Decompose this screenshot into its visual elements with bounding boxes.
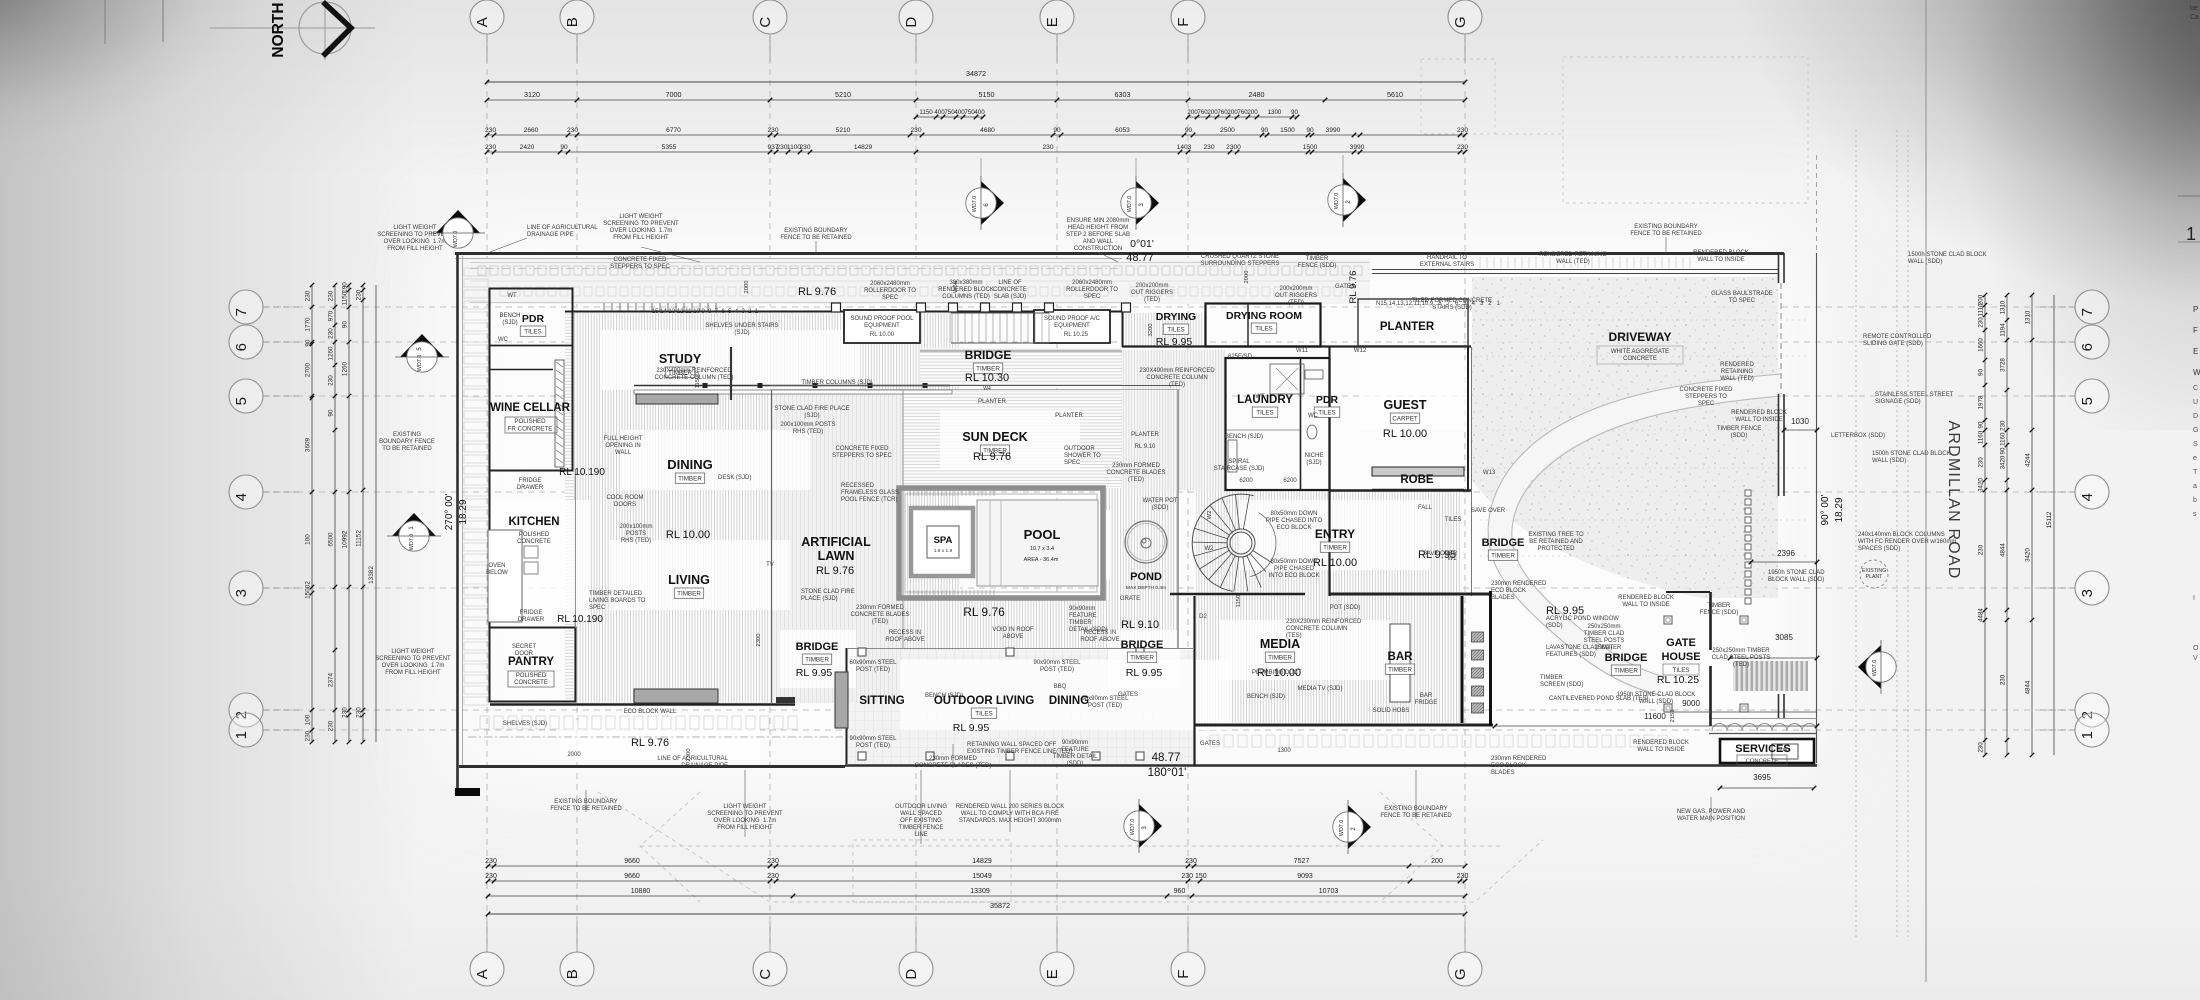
svg-text:DOORS: DOORS xyxy=(614,502,636,508)
svg-text:2300: 2300 xyxy=(686,749,692,762)
svg-text:B: B xyxy=(564,17,581,27)
svg-text:TO SPEC: TO SPEC xyxy=(1729,298,1756,304)
svg-text:FEATURES (SDD): FEATURES (SDD) xyxy=(1546,652,1596,658)
svg-text:4244: 4244 xyxy=(2025,453,2032,467)
svg-text:F: F xyxy=(1175,970,1192,979)
svg-text:2480: 2480 xyxy=(1249,90,1265,99)
svg-text:230: 230 xyxy=(1203,144,1214,151)
svg-text:WHITE AGGREGATE: WHITE AGGREGATE xyxy=(1611,349,1669,355)
svg-text:6: 6 xyxy=(2079,343,2096,351)
svg-text:PIPE CHASED: PIPE CHASED xyxy=(1274,566,1315,572)
svg-text:DRIVEWAY: DRIVEWAY xyxy=(1609,330,1672,344)
svg-text:PLACE (SJD): PLACE (SJD) xyxy=(801,596,838,602)
svg-text:230: 230 xyxy=(1457,127,1468,134)
svg-text:EXISTING TREE TO: EXISTING TREE TO xyxy=(1528,532,1584,538)
svg-text:STONE CLAD FIRE: STONE CLAD FIRE xyxy=(801,589,855,595)
svg-text:TIMBER FENCE: TIMBER FENCE xyxy=(1717,426,1762,432)
svg-text:230 150: 230 150 xyxy=(1181,873,1206,880)
svg-text:be: be xyxy=(2190,5,2198,12)
svg-text:230: 230 xyxy=(1978,317,1985,328)
svg-text:RL 10.00: RL 10.00 xyxy=(870,332,895,338)
svg-text:D: D xyxy=(2193,413,2198,420)
svg-text:FRIDGE: FRIDGE xyxy=(1415,700,1438,706)
svg-text:SIGNAGE (SDD): SIGNAGE (SDD) xyxy=(1875,399,1921,405)
svg-text:230: 230 xyxy=(1457,144,1468,151)
svg-text:RETAINING: RETAINING xyxy=(1721,369,1754,375)
svg-text:a: a xyxy=(2193,483,2197,490)
svg-text:SCREENING TO PREVENT: SCREENING TO PREVENT xyxy=(375,656,451,662)
svg-text:STEEL POSTS: STEEL POSTS xyxy=(1584,638,1625,644)
sheet edge fragments xyxy=(2178,97,2200,99)
svg-text:CONCRETE: CONCRETE xyxy=(1623,356,1657,362)
svg-text:(SDD): (SDD) xyxy=(1067,761,1084,767)
boundary walls xyxy=(455,252,1784,255)
spa xyxy=(911,508,973,576)
svg-text:RL 9.95: RL 9.95 xyxy=(1156,336,1193,348)
svg-text:RL 10.25: RL 10.25 xyxy=(1657,674,1699,686)
svg-text:100: 100 xyxy=(305,714,312,725)
svg-text:90x90mm: 90x90mm xyxy=(1062,740,1088,746)
svg-text:STUDY: STUDY xyxy=(659,352,702,366)
svg-text:BRIDGE: BRIDGE xyxy=(1482,537,1525,549)
svg-text:HEAD HEIGHT FROM: HEAD HEIGHT FROM xyxy=(1068,225,1128,231)
svg-text:230: 230 xyxy=(485,127,496,134)
svg-text:EQUIPMENT: EQUIPMENT xyxy=(864,323,900,329)
svg-text:5210: 5210 xyxy=(835,90,851,99)
svg-text:230mm FORMED: 230mm FORMED xyxy=(856,605,904,611)
svg-text:TIMBER CLAD: TIMBER CLAD xyxy=(1584,631,1625,637)
svg-text:WC: WC xyxy=(1308,413,1319,419)
svg-text:WD7.0: WD7.0 xyxy=(1334,193,1340,209)
svg-text:3695: 3695 xyxy=(1753,773,1771,782)
svg-text:RENDERED RETAINING: RENDERED RETAINING xyxy=(1539,252,1607,258)
svg-text:BLADES: BLADES xyxy=(1491,595,1515,601)
svg-text:FRAMELESS GLASS: FRAMELESS GLASS xyxy=(841,490,899,496)
svg-text:F: F xyxy=(1175,18,1192,27)
svg-text:(TED): (TED) xyxy=(872,619,888,625)
svg-text:PROTECTED: PROTECTED xyxy=(1537,546,1575,552)
svg-text:CARPET: CARPET xyxy=(1392,416,1418,423)
svg-text:P: P xyxy=(2193,305,2198,314)
svg-text:960: 960 xyxy=(1174,888,1186,895)
svg-text:FENCE TO BE RETAINED: FENCE TO BE RETAINED xyxy=(1380,813,1452,819)
svg-text:230: 230 xyxy=(1978,544,1985,555)
svg-text:W11: W11 xyxy=(1296,348,1309,354)
svg-text:SAVE OVER: SAVE OVER xyxy=(1471,508,1506,514)
svg-text:I: I xyxy=(2193,595,2195,602)
svg-text:STEPPERS TO SPEC: STEPPERS TO SPEC xyxy=(832,453,892,459)
svg-text:POOL: POOL xyxy=(1024,527,1061,542)
svg-text:SLAB (SJD): SLAB (SJD) xyxy=(994,294,1026,300)
svg-text:6200: 6200 xyxy=(1239,478,1253,484)
svg-text:INTO ECO BLOCK: INTO ECO BLOCK xyxy=(1269,573,1320,579)
svg-text:90: 90 xyxy=(1978,421,1985,428)
svg-text:200x100mm POSTS: 200x100mm POSTS xyxy=(780,422,835,428)
svg-text:STEPPERS TO: STEPPERS TO xyxy=(1685,394,1727,400)
svg-text:(TED): (TED) xyxy=(1144,297,1160,303)
svg-text:e: e xyxy=(2193,455,2197,462)
svg-text:W13: W13 xyxy=(1483,470,1496,476)
svg-text:400: 400 xyxy=(974,109,985,116)
svg-text:OUT RIGGERS: OUT RIGGERS xyxy=(1275,293,1317,299)
svg-text:1160: 1160 xyxy=(1978,430,1985,444)
svg-text:CONCRETE BLADES: CONCRETE BLADES xyxy=(850,612,909,618)
svg-text:RENDERED: RENDERED xyxy=(1720,362,1754,368)
svg-text:230: 230 xyxy=(328,290,335,301)
svg-text:250x250mm: 250x250mm xyxy=(1587,624,1620,630)
svg-text:ECO BLOCK: ECO BLOCK xyxy=(1491,763,1526,769)
svg-text:1950h STONE CLAD: 1950h STONE CLAD xyxy=(1768,570,1825,576)
svg-text:SPEC: SPEC xyxy=(589,605,606,611)
svg-text:1150: 1150 xyxy=(342,291,349,305)
svg-text:2159: 2159 xyxy=(1670,710,1676,723)
svg-text:POLISHED: POLISHED xyxy=(519,532,550,538)
svg-text:270° 00': 270° 00' xyxy=(444,494,455,531)
svg-text:TIMBER: TIMBER xyxy=(677,591,701,598)
spiral staircase xyxy=(1192,494,1276,591)
svg-text:BLOCK WALL (SDD): BLOCK WALL (SDD) xyxy=(1768,577,1824,583)
svg-text:3: 3 xyxy=(2079,589,2096,597)
svg-text:230mm RENDERED: 230mm RENDERED xyxy=(1491,756,1547,762)
svg-text:LAWN: LAWN xyxy=(818,549,855,563)
svg-text:FENCE (SDD): FENCE (SDD) xyxy=(1298,263,1337,269)
svg-text:OVEN: OVEN xyxy=(488,563,505,569)
svg-text:FULL HEIGHT: FULL HEIGHT xyxy=(604,436,643,442)
svg-text:W6a: W6a xyxy=(953,280,959,293)
svg-text:230X230mm REINFORCED: 230X230mm REINFORCED xyxy=(1286,619,1362,625)
floor textures xyxy=(574,313,960,703)
svg-text:OVER LOOKING 1.7m: OVER LOOKING 1.7m xyxy=(610,228,673,234)
svg-text:POST (TED): POST (TED) xyxy=(1040,667,1074,673)
svg-text:SPACES (SDD): SPACES (SDD) xyxy=(1858,546,1900,552)
svg-text:WALL (SDD): WALL (SDD) xyxy=(1639,699,1673,705)
svg-text:EXISTING: EXISTING xyxy=(393,432,421,438)
svg-text:WALL: WALL xyxy=(615,450,632,456)
svg-text:625E/SD: 625E/SD xyxy=(1228,354,1253,360)
svg-text:TILES: TILES xyxy=(1256,410,1274,417)
svg-text:ROBE: ROBE xyxy=(1400,474,1434,486)
svg-text:W: W xyxy=(2193,368,2200,377)
svg-text:1260: 1260 xyxy=(328,346,335,361)
svg-text:230: 230 xyxy=(305,730,312,741)
timber fence squares column xyxy=(1745,490,1751,496)
svg-text:TILES: TILES xyxy=(1255,326,1273,333)
svg-text:SPEC: SPEC xyxy=(882,295,899,301)
svg-text:LIVING BOARDS TO: LIVING BOARDS TO xyxy=(589,598,646,604)
svg-text:4680: 4680 xyxy=(980,127,995,134)
svg-text:RL 9.76: RL 9.76 xyxy=(631,737,669,749)
svg-text:CONCRETE FIXED: CONCRETE FIXED xyxy=(1679,387,1733,393)
svg-text:SPA: SPA xyxy=(934,535,953,546)
svg-text:TIMBER: TIMBER xyxy=(1491,553,1515,560)
svg-text:90: 90 xyxy=(1053,127,1061,134)
svg-text:7: 7 xyxy=(233,308,250,316)
svg-text:ENSURE MIN 2080mm: ENSURE MIN 2080mm xyxy=(1067,218,1130,224)
svg-text:WALL TO INSIDE: WALL TO INSIDE xyxy=(1735,417,1782,423)
svg-text:(SJD): (SJD) xyxy=(1306,460,1321,466)
svg-text:5355: 5355 xyxy=(662,144,677,151)
svg-text:NORTH: NORTH xyxy=(270,2,287,57)
svg-text:3: 3 xyxy=(233,589,250,597)
svg-text:1: 1 xyxy=(2186,224,2196,244)
svg-text:SURROUNDING STEPPERS: SURROUNDING STEPPERS xyxy=(1200,261,1279,267)
svg-text:VOID IN ROOF: VOID IN ROOF xyxy=(992,627,1034,633)
svg-text:CRUSHED QUARTZ STONE: CRUSHED QUARTZ STONE xyxy=(1201,254,1279,260)
svg-text:1500h STONE CLAD BLOCK: 1500h STONE CLAD BLOCK xyxy=(1908,252,1987,258)
svg-text:RL 10.30: RL 10.30 xyxy=(965,372,1009,384)
svg-text:WALL SPACED: WALL SPACED xyxy=(900,811,942,817)
svg-text:STONE CLAD FIRE PLACE: STONE CLAD FIRE PLACE xyxy=(775,406,850,412)
svg-text:1300: 1300 xyxy=(1277,748,1291,754)
svg-text:D: D xyxy=(903,17,920,28)
svg-text:240x140mm BLOCK COLUMNS: 240x140mm BLOCK COLUMNS xyxy=(1858,532,1945,538)
svg-text:WALL (TED): WALL (TED) xyxy=(1556,259,1590,265)
svg-text:RHS (TED): RHS (TED) xyxy=(793,429,823,435)
svg-text:OVER LOOKING 1.7m: OVER LOOKING 1.7m xyxy=(384,239,447,245)
svg-text:BBQ: BBQ xyxy=(1054,684,1067,690)
svg-text:FRIDGE: FRIDGE xyxy=(520,610,543,616)
svg-text:230: 230 xyxy=(342,707,349,718)
svg-text:230: 230 xyxy=(328,328,335,339)
svg-text:TIMBER DETAILED: TIMBER DETAILED xyxy=(589,591,643,597)
svg-text:FEATURE: FEATURE xyxy=(1069,613,1097,619)
svg-text:2000: 2000 xyxy=(567,752,581,758)
svg-text:SPEC: SPEC xyxy=(1698,401,1715,407)
svg-text:WINE CELLAR: WINE CELLAR xyxy=(490,402,571,414)
svg-text:4: 4 xyxy=(2079,493,2096,501)
svg-text:11152: 11152 xyxy=(356,530,363,547)
svg-text:5610: 5610 xyxy=(1387,90,1403,99)
svg-text:WD7.0: WD7.0 xyxy=(1130,819,1136,835)
svg-text:90x90mm: 90x90mm xyxy=(1069,606,1095,612)
svg-text:ENTRY: ENTRY xyxy=(1315,527,1355,541)
svg-text:(SDD): (SDD) xyxy=(1152,505,1169,511)
svg-text:10992: 10992 xyxy=(342,530,349,548)
svg-text:RECESSED: RECESSED xyxy=(841,483,875,489)
svg-text:250x250mm TIMBER: 250x250mm TIMBER xyxy=(1712,648,1770,654)
svg-text:3990: 3990 xyxy=(1326,127,1341,134)
svg-text:REMOTE CONTROLLED: REMOTE CONTROLLED xyxy=(1863,334,1932,340)
svg-text:3085: 3085 xyxy=(1775,633,1793,642)
svg-text:OPENING IN: OPENING IN xyxy=(605,443,640,449)
svg-text:ROOF ABOVE: ROOF ABOVE xyxy=(885,637,924,643)
svg-text:230: 230 xyxy=(1978,742,1985,753)
svg-text:SPEC: SPEC xyxy=(1064,460,1081,466)
svg-text:WITH FC RENDER OVER w/160mm: WITH FC RENDER OVER w/160mm xyxy=(1858,539,1956,545)
svg-text:(SDD): (SDD) xyxy=(1546,623,1563,629)
svg-text:230: 230 xyxy=(485,873,497,880)
svg-text:230: 230 xyxy=(567,127,578,134)
svg-text:SOLID HOBS: SOLID HOBS xyxy=(1373,708,1410,714)
svg-text:2000: 2000 xyxy=(1244,271,1250,284)
svg-text:970: 970 xyxy=(328,310,335,321)
svg-text:POSTS: POSTS xyxy=(626,531,646,537)
svg-text:200: 200 xyxy=(1247,109,1258,116)
svg-text:FENCE TO BE RETAINED: FENCE TO BE RETAINED xyxy=(550,806,622,812)
svg-text:2300: 2300 xyxy=(756,634,762,647)
svg-text:230mm FORMED: 230mm FORMED xyxy=(929,756,977,762)
svg-text:RENDERED BLOCK: RENDERED BLOCK xyxy=(1731,410,1787,416)
svg-text:WD7.0: WD7.0 xyxy=(453,231,459,247)
svg-text:5: 5 xyxy=(2079,397,2096,405)
svg-text:7000: 7000 xyxy=(666,90,682,99)
svg-text:BOUNDARY FENCE: BOUNDARY FENCE xyxy=(379,439,435,445)
grid bubbles xyxy=(470,0,504,34)
svg-text:(TES): (TES) xyxy=(1286,633,1302,639)
svg-text:WD7.0: WD7.0 xyxy=(972,196,978,212)
svg-text:34872: 34872 xyxy=(966,69,986,78)
svg-text:2396: 2396 xyxy=(1777,549,1795,558)
svg-text:PLANT: PLANT xyxy=(1866,574,1884,580)
svg-text:6053: 6053 xyxy=(1115,127,1130,134)
svg-text:RL 10.190: RL 10.190 xyxy=(559,467,605,478)
svg-text:CONCRETE BLADES: CONCRETE BLADES xyxy=(1106,470,1165,476)
svg-text:CONCRETE FIXED: CONCRETE FIXED xyxy=(835,446,889,452)
svg-text:OUTDOOR: OUTDOOR xyxy=(1064,446,1095,452)
svg-text:E: E xyxy=(1044,969,1061,979)
svg-text:200x200mm: 200x200mm xyxy=(1279,286,1312,292)
svg-text:POST (TED): POST (TED) xyxy=(1088,703,1122,709)
svg-text:FRIDGE: FRIDGE xyxy=(519,478,542,484)
right lot boundary xyxy=(1816,253,1818,763)
svg-text:80x50mm DOWN: 80x50mm DOWN xyxy=(1270,511,1317,517)
svg-text:DINING: DINING xyxy=(667,457,713,472)
svg-text:KITCHEN: KITCHEN xyxy=(508,516,559,528)
svg-text:PANTRY: PANTRY xyxy=(508,656,554,668)
svg-text:O: O xyxy=(2193,645,2199,652)
svg-text:ROLLERDOOR TO: ROLLERDOOR TO xyxy=(1066,287,1118,293)
svg-text:LINE OF AGRICULTURAL: LINE OF AGRICULTURAL xyxy=(657,756,728,762)
svg-text:2000: 2000 xyxy=(744,281,750,294)
svg-text:CONCRETE: CONCRETE xyxy=(993,287,1027,293)
svg-text:100: 100 xyxy=(305,534,312,545)
svg-text:LIVING: LIVING xyxy=(668,573,710,587)
svg-text:RENDERED BLOCK: RENDERED BLOCK xyxy=(1633,740,1689,746)
svg-text:POLISHED: POLISHED xyxy=(514,418,546,425)
svg-text:STEP 2 BEFORE SLAB: STEP 2 BEFORE SLAB xyxy=(1066,232,1130,238)
svg-text:1403: 1403 xyxy=(1177,144,1192,151)
svg-text:FEATURE: FEATURE xyxy=(1061,747,1089,753)
gate bridge deck xyxy=(1733,661,1808,691)
svg-text:BENCH (SJD): BENCH (SJD) xyxy=(1225,434,1263,440)
svg-text:1150D: 1150D xyxy=(695,372,701,389)
svg-text:3728: 3728 xyxy=(2000,358,2007,372)
svg-text:2060x2480mm: 2060x2480mm xyxy=(870,281,910,287)
svg-text:13382: 13382 xyxy=(368,566,375,584)
svg-text:1770: 1770 xyxy=(305,317,312,332)
svg-text:WALL TO INSIDE: WALL TO INSIDE xyxy=(1637,747,1684,753)
svg-text:D2: D2 xyxy=(1199,614,1207,620)
svg-text:(TED): (TED) xyxy=(1288,300,1304,306)
svg-text:SPEC: SPEC xyxy=(1084,294,1101,300)
svg-text:SCREEN (SDD): SCREEN (SDD) xyxy=(1540,682,1583,688)
svg-text:WD7.0: WD7.0 xyxy=(1127,196,1133,212)
svg-text:V: V xyxy=(2193,655,2198,662)
svg-text:(TED): (TED) xyxy=(1733,662,1749,668)
svg-text:COLUMNS (TED): COLUMNS (TED) xyxy=(942,294,990,300)
svg-text:9660: 9660 xyxy=(624,858,640,865)
svg-text:DOOR: DOOR xyxy=(515,651,534,657)
svg-text:90x90mm STEEL: 90x90mm STEEL xyxy=(849,736,897,742)
svg-text:230: 230 xyxy=(910,127,921,134)
svg-text:13309: 13309 xyxy=(970,888,990,895)
svg-text:200: 200 xyxy=(1978,294,1985,305)
svg-text:TIMBER: TIMBER xyxy=(678,476,702,483)
svg-text:C: C xyxy=(2193,385,2198,392)
svg-text:TILES: TILES xyxy=(1167,327,1185,334)
grid lines xyxy=(264,36,2073,950)
svg-text:WATER POT: WATER POT xyxy=(1143,498,1178,504)
svg-text:230: 230 xyxy=(485,144,496,151)
svg-text:230: 230 xyxy=(305,290,312,301)
svg-text:3200: 3200 xyxy=(1148,324,1154,337)
svg-text:BAR: BAR xyxy=(1388,651,1414,663)
svg-text:CONSTRUCTION: CONSTRUCTION xyxy=(1074,246,1122,252)
svg-text:MAX DEPTH 0.3m: MAX DEPTH 0.3m xyxy=(1126,585,1166,591)
svg-text:2420: 2420 xyxy=(520,144,535,151)
svg-text:W1: W1 xyxy=(1448,556,1458,562)
bottom dimension rows xyxy=(488,865,1465,867)
svg-text:GATES: GATES xyxy=(1118,692,1138,698)
svg-text:RL 9.10: RL 9.10 xyxy=(1121,619,1159,631)
svg-text:W12: W12 xyxy=(1354,348,1367,354)
svg-text:4: 4 xyxy=(233,493,250,501)
svg-text:90: 90 xyxy=(342,321,349,329)
svg-text:90: 90 xyxy=(1306,127,1314,134)
svg-text:90: 90 xyxy=(1978,369,1985,376)
svg-text:4484: 4484 xyxy=(1978,608,1985,622)
svg-text:RL 10.25: RL 10.25 xyxy=(1064,332,1089,338)
svg-text:10880: 10880 xyxy=(631,888,651,895)
north arrow xyxy=(210,27,375,29)
svg-text:TIMBER: TIMBER xyxy=(1130,655,1154,662)
svg-text:FROM FILL HEIGHT: FROM FILL HEIGHT xyxy=(385,670,441,676)
svg-text:ACRYLIC POND WINDOW: ACRYLIC POND WINDOW xyxy=(1546,616,1619,622)
svg-text:1500h STONE CLAD BLOCK: 1500h STONE CLAD BLOCK xyxy=(1872,451,1951,457)
svg-text:ABOVE: ABOVE xyxy=(1003,634,1024,640)
svg-text:1: 1 xyxy=(2079,731,2096,739)
svg-text:DESK (SJD): DESK (SJD) xyxy=(718,475,751,481)
svg-text:STAIRCASE (SJD): STAIRCASE (SJD) xyxy=(1214,466,1265,472)
pool water xyxy=(977,500,1098,586)
svg-text:TILES: TILES xyxy=(524,329,542,336)
svg-text:90: 90 xyxy=(1291,109,1298,116)
svg-text:PLANTER: PLANTER xyxy=(1055,413,1083,419)
svg-text:80x50mm DOWN: 80x50mm DOWN xyxy=(1270,559,1317,565)
svg-text:1.9 x 1.9: 1.9 x 1.9 xyxy=(934,548,953,554)
svg-text:48.77: 48.77 xyxy=(1126,252,1154,264)
svg-text:RENDERED BLOCK: RENDERED BLOCK xyxy=(938,287,994,293)
svg-text:TIMBER: TIMBER xyxy=(1614,668,1638,675)
svg-text:TILES: TILES xyxy=(975,711,993,718)
svg-text:b: b xyxy=(2193,497,2197,504)
svg-text:C: C xyxy=(757,17,774,28)
svg-text:TIMBER COLUMNS (SJD): TIMBER COLUMNS (SJD) xyxy=(801,380,872,386)
svg-text:9000: 9000 xyxy=(1682,699,1700,708)
svg-text:9660: 9660 xyxy=(624,873,640,880)
svg-text:CONCRETE FIXED: CONCRETE FIXED xyxy=(613,257,667,263)
svg-text:WT: WT xyxy=(507,293,517,299)
svg-text:2300: 2300 xyxy=(1226,144,1241,151)
svg-text:14829: 14829 xyxy=(854,144,873,151)
svg-text:G: G xyxy=(1452,16,1469,28)
svg-text:1260: 1260 xyxy=(342,361,349,376)
left dimensions xyxy=(311,285,313,742)
svg-text:PLANTER: PLANTER xyxy=(1131,432,1159,438)
svg-text:(SDD): (SDD) xyxy=(1596,645,1613,651)
svg-text:BENCH (SJD): BENCH (SJD) xyxy=(1247,694,1285,700)
svg-text:SPIRAL: SPIRAL xyxy=(1228,459,1250,465)
